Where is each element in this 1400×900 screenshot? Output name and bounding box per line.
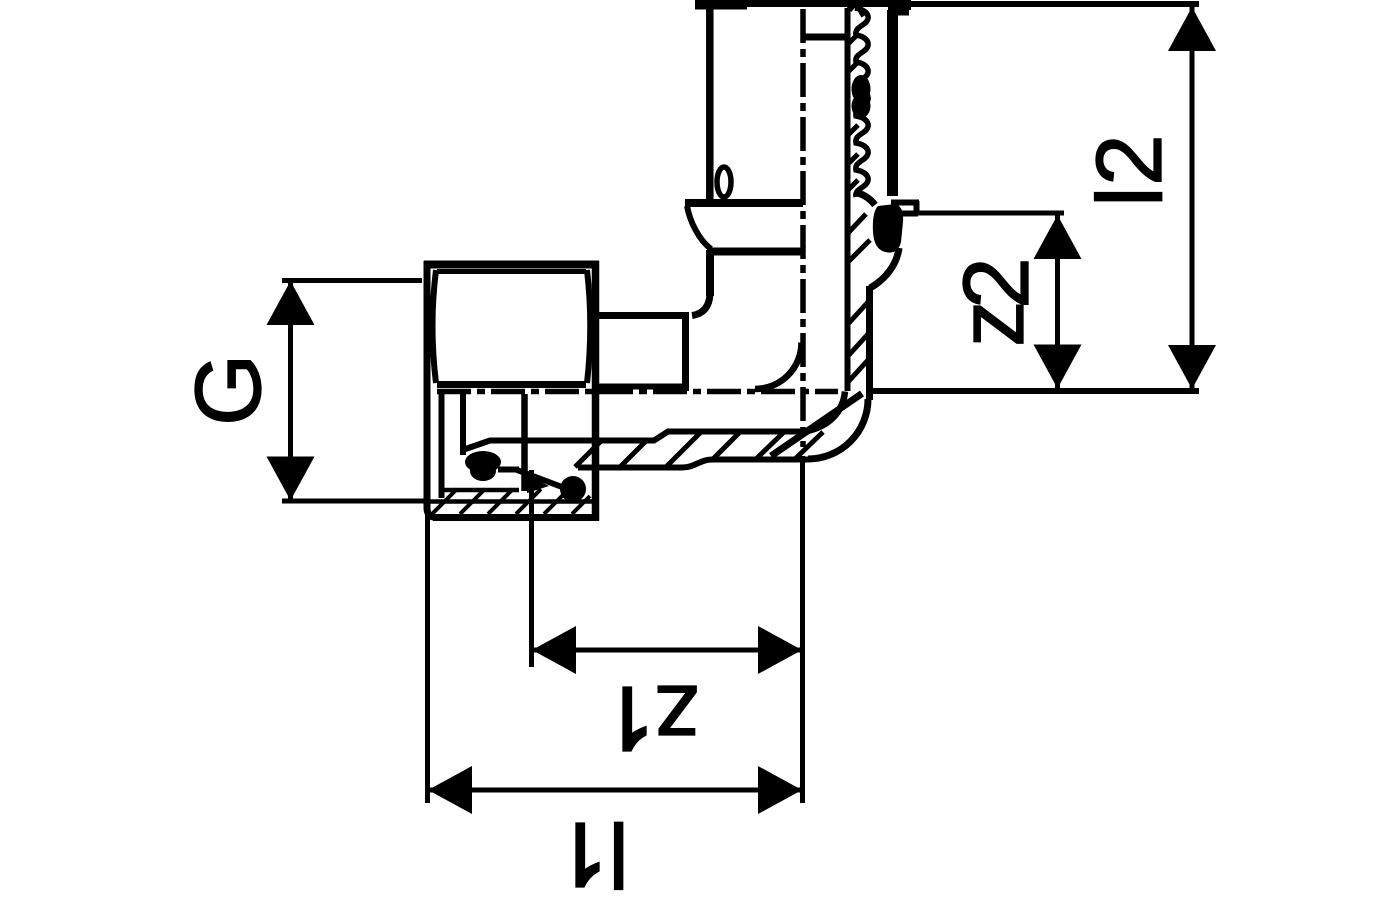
thread root line: [427, 499, 592, 504]
bead connector from profile: [858, 193, 875, 205]
shared bottom extension line right: [869, 388, 1199, 394]
pipe end face right: [803, 34, 846, 41]
sleeve end tab top: [891, 200, 919, 206]
dimension z1 line: [532, 648, 802, 653]
sleeve outer wall: [887, 10, 898, 196]
corrugated press profile: [855, 8, 868, 197]
union nut right chamfer curve: [587, 270, 590, 383]
seat diagonal: [517, 470, 562, 487]
bead outer S-curve: [870, 248, 899, 288]
outer bend arc: [808, 399, 868, 459]
dimension G bottom extension: [282, 499, 427, 504]
o-ring dark blobs in profile: [852, 75, 871, 118]
gasket blob 2: [560, 476, 586, 502]
dimension z1 left extension: [529, 470, 534, 667]
boss face line: [682, 315, 689, 391]
svg-text:l: l: [608, 802, 629, 900]
union nut inner wall section: [439, 392, 445, 498]
dimension z2 line: [1055, 215, 1060, 389]
dimension z1 arrows: [532, 626, 802, 674]
bend diagonal hatch: [771, 394, 862, 457]
pipe left wall: [706, 7, 714, 199]
branch stub bottom line: [597, 384, 685, 390]
gasket blob 1: [465, 451, 501, 481]
fitting outer wall right: [866, 286, 873, 400]
union nut bottom outer line: [433, 514, 595, 521]
dimension z2 arrows: [1034, 215, 1082, 389]
branch band hatching: [575, 432, 823, 467]
top flange band: [695, 0, 911, 10]
union nut bottom edge above centerline: [437, 381, 586, 388]
svg-text:z: z: [939, 301, 1043, 348]
union nut inner top line: [437, 269, 586, 274]
bead blob: [873, 204, 903, 253]
svg-text:z: z: [654, 666, 701, 770]
seat wedge: [527, 475, 549, 493]
sleeve band hatching: [847, 34, 870, 382]
dimension l1 left extension: [425, 514, 430, 803]
tailpiece cone wall: [460, 394, 466, 455]
dimension l2 arrows: [1168, 7, 1216, 389]
inner bend arc: [805, 392, 845, 432]
bell mouth left curve: [687, 206, 711, 249]
union nut top edge: [424, 261, 599, 269]
svg-text:2: 2: [1077, 134, 1181, 186]
dimension G line: [288, 283, 293, 499]
flange underside right lip: [890, 10, 909, 16]
sleeve inner wall: [845, 8, 851, 391]
socket outer wall left: [706, 250, 714, 296]
horizontal centerline: [437, 389, 838, 395]
dimension G arrows: [267, 281, 315, 501]
dimension l2 top extension: [905, 1, 1199, 7]
dimension z1 right extension: [800, 456, 805, 803]
vertical centerline: [800, 9, 806, 447]
dimension l1 arrows: [428, 766, 802, 814]
bell mouth top line: [685, 199, 803, 207]
nut band hatching: [432, 489, 590, 514]
dimension l1 line: [428, 788, 802, 793]
bell mouth bottom line: [709, 248, 803, 256]
seat line: [498, 467, 519, 473]
union nut left face: [427, 261, 437, 518]
dimension z2 top extension: [910, 211, 1064, 216]
svg-text:l: l: [1078, 186, 1182, 207]
branch top line: [599, 312, 689, 319]
union nut right face: [592, 261, 600, 521]
branch band upper boundary: [464, 432, 806, 450]
corrugation apex: [849, 2, 864, 16]
pressing indicator ellipse: [717, 167, 731, 197]
sleeve end tab right: [914, 201, 920, 214]
sleeve end tab bottom: [881, 211, 918, 217]
thread crest line: [441, 488, 519, 493]
inner elbow arc: [755, 343, 802, 390]
dimension l2 line: [1190, 7, 1195, 389]
svg-text:G: G: [176, 354, 280, 426]
dimension G top extension: [282, 278, 422, 283]
union nut left chamfer curve: [433, 270, 437, 383]
mating face line: [521, 394, 528, 491]
branch band lower boundary: [578, 460, 809, 468]
socket step: [692, 294, 710, 316]
